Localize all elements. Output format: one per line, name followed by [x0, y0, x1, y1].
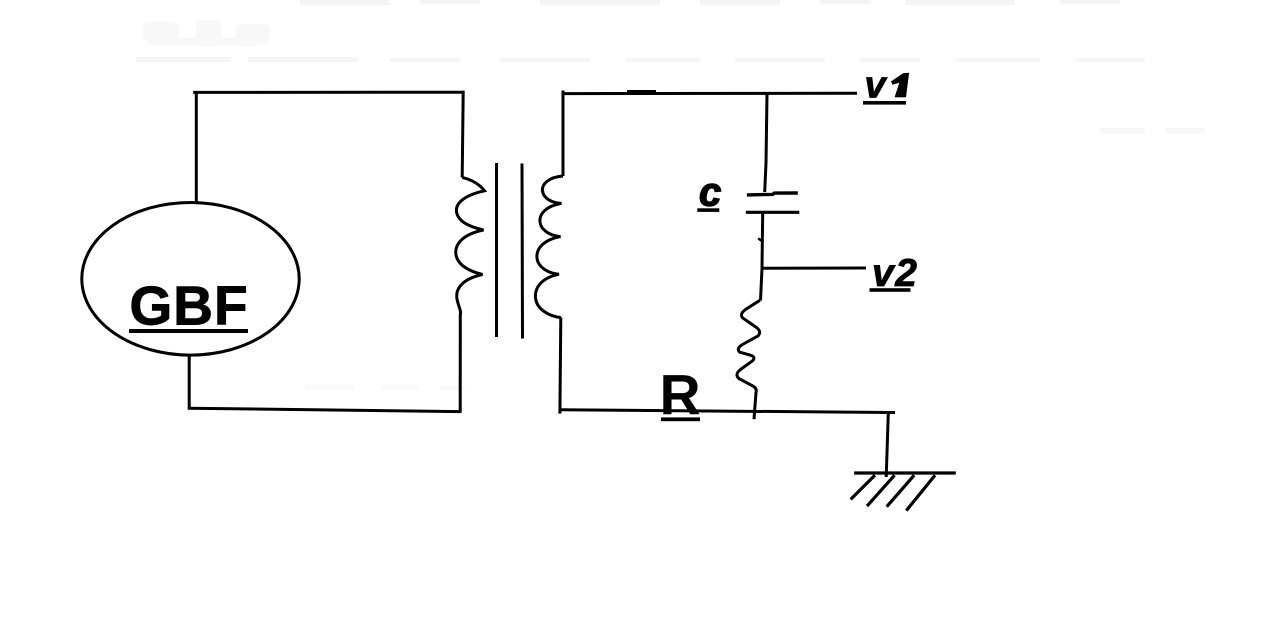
source GBF ellipse body [82, 202, 299, 355]
wire: retrace dash on top horizontal [627, 90, 656, 93]
svg-text:c: c [699, 171, 721, 215]
transformer T core line left [495, 163, 498, 337]
resistor R label underline [661, 417, 700, 421]
wire: small spur on capacitor lower lead [758, 238, 761, 240]
wire: primary loop bottom horizontal [188, 408, 461, 411]
svg-text:GBF: GBF [130, 275, 249, 337]
node v1 label digit 1 [891, 73, 909, 98]
wire: secondary loop top horizontal to v1 [562, 92, 858, 95]
wire: GBF top lead vertical [195, 91, 198, 204]
ground symbol hatch 4 [906, 475, 935, 510]
wire: capacitor branch upper vertical [765, 94, 767, 192]
transformer T primary winding [456, 177, 485, 314]
wire: ground lead vertical [886, 413, 888, 477]
wire: secondary top vertical [562, 91, 565, 177]
wire: secondary loop bottom horizontal [560, 410, 896, 413]
resistor R zigzag body [737, 300, 760, 419]
ground symbol hatch 2 [867, 475, 895, 506]
capacitor c top plate [747, 193, 798, 195]
wire: v2 node horizontal [762, 267, 866, 270]
capacitor c label underline [697, 208, 719, 212]
svg-text:v: v [865, 65, 888, 107]
wire: v2 node to resistor vertical [761, 268, 763, 300]
wire: primary loop top horizontal [193, 91, 464, 94]
wire: GBF bottom lead vertical [188, 354, 191, 409]
ground symbol baseline [854, 471, 956, 474]
node v2 underline [870, 288, 911, 292]
transformer T core line right [521, 164, 525, 339]
node v1 underline [863, 101, 906, 105]
transformer T secondary winding [535, 176, 563, 318]
capacitor c bottom plate [746, 211, 800, 214]
wire: capacitor to v2 node vertical [761, 213, 765, 269]
wire: primary top vertical drop [462, 91, 463, 178]
wire: secondary bottom vertical [558, 318, 562, 414]
ground symbol hatch 3 [887, 475, 915, 507]
ground symbol hatch 1 [851, 475, 875, 499]
wire: primary bottom vertical rise [459, 314, 462, 413]
source GBF label underline [129, 329, 248, 333]
